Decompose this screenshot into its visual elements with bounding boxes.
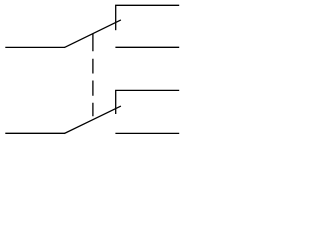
- DPDT ganged switch schematic: [0, 0, 187, 142]
- switch S1b throw terminal vertical: [115, 90, 117, 114]
- wire from S1b upper throw (right horizontal): [115, 89, 179, 91]
- wire from S1a upper throw (top-right horizontal): [115, 4, 179, 6]
- switch S1a common wire (top-left): [5, 46, 65, 48]
- switch S1a arm (top pole, thrown up): [64, 20, 121, 48]
- switch S1b arm (bottom pole, thrown up): [64, 106, 121, 133]
- switch S1a throw terminal vertical: [115, 5, 117, 30]
- dashed mechanical gang link between poles: [92, 34, 94, 117]
- switch S1b common wire (bottom-left): [5, 132, 65, 134]
- wire S1a lower throw (open contact, right horizontal): [115, 46, 179, 48]
- wire S1b lower throw (open contact, right horizontal): [115, 132, 179, 134]
